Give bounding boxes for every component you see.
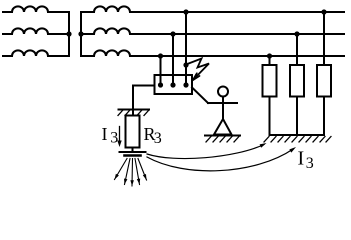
earth surface hatching right bbox=[264, 137, 331, 143]
stray current path arrow upper bbox=[147, 143, 267, 159]
wire primary star point bbox=[68, 12, 70, 56]
transformer secondary winding phase B (coil) bbox=[81, 28, 130, 34]
wire R3 to earth electrode bbox=[132, 148, 134, 153]
ground hatching under person bbox=[206, 137, 239, 143]
wire bus line L2 bbox=[130, 33, 344, 35]
junction tap resistor b bbox=[294, 31, 299, 36]
resistor c (phase insulation resistance) bbox=[317, 65, 331, 97]
wire bus line L1 bbox=[130, 11, 344, 13]
resistor a (phase insulation resistance) bbox=[263, 65, 277, 97]
wire tap L2 to equipment bbox=[172, 34, 174, 85]
junction tap resistor a bbox=[267, 53, 272, 58]
terminal 1 bbox=[158, 82, 163, 87]
svg-text:I: I bbox=[102, 124, 108, 144]
svg-text:3: 3 bbox=[154, 130, 162, 147]
person head bbox=[218, 87, 228, 97]
wire tap L3 to earthing resistor a bbox=[269, 56, 271, 65]
earth surface line at R3 bbox=[119, 109, 150, 111]
ground line under person bbox=[205, 135, 240, 137]
earth electrode plate upper bbox=[120, 151, 146, 153]
junction tap L2 bbox=[170, 31, 175, 36]
wire enclosure to person (touch contact) bbox=[192, 88, 208, 104]
fault lightning arrow bbox=[186, 59, 209, 81]
earth surface hatching at R3 bbox=[118, 111, 149, 116]
wire tap L2 to earthing resistor b bbox=[296, 34, 298, 65]
resistor R3 (earthing resistance) bbox=[126, 116, 140, 148]
wire resistor a to earth bus bbox=[269, 97, 271, 136]
wire resistor c to earth bus bbox=[323, 97, 325, 136]
person legs bbox=[214, 119, 232, 135]
junction tap L1 bbox=[183, 9, 188, 14]
svg-text:3: 3 bbox=[306, 155, 314, 172]
junction fault point on phase wire bbox=[183, 62, 188, 67]
equipment enclosure box bbox=[155, 75, 193, 94]
current spreading arrows into soil bbox=[115, 159, 147, 187]
junction tap L3 bbox=[158, 53, 163, 58]
terminal 3 bbox=[183, 82, 188, 87]
junction primary neutral bbox=[66, 31, 71, 36]
stray current path arrow lower bbox=[147, 147, 296, 171]
wire enclosure to earthing conductor bbox=[133, 86, 155, 116]
transformer primary winding phase C (coil) bbox=[3, 50, 69, 56]
transformer secondary winding phase C (coil) bbox=[81, 50, 130, 56]
transformer primary winding phase B (coil) bbox=[3, 28, 69, 34]
terminal 2 bbox=[170, 82, 175, 87]
resistor b (phase insulation resistance) bbox=[290, 65, 304, 97]
svg-text:3: 3 bbox=[110, 130, 118, 147]
junction secondary neutral bbox=[78, 31, 83, 36]
transformer secondary winding phase A (coil) bbox=[81, 6, 130, 12]
wire secondary star point bbox=[80, 12, 82, 56]
svg-text:I: I bbox=[298, 148, 305, 170]
junction tap resistor c bbox=[321, 9, 326, 14]
earth electrode plate lower bbox=[125, 154, 141, 157]
earth bus line bbox=[270, 134, 325, 136]
wire resistor b to earth bus bbox=[296, 97, 298, 136]
wire tap L1 to earthing resistor c bbox=[323, 12, 325, 65]
person arms bbox=[208, 102, 237, 104]
transformer primary winding phase A (coil) bbox=[3, 6, 69, 12]
wire tap L3 to equipment bbox=[160, 56, 162, 85]
wire tap L1 to equipment bbox=[185, 12, 187, 85]
wire bus line L3 bbox=[130, 55, 344, 57]
person body bbox=[222, 97, 224, 120]
arrow I3 direction bbox=[117, 127, 121, 148]
